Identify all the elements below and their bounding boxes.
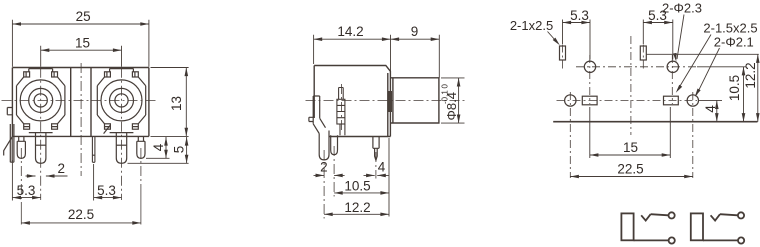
side pin 2 <box>331 135 338 154</box>
svg-text:14.2: 14.2 <box>337 24 363 39</box>
dim 2 (side) <box>314 174 345 178</box>
svg-text:22.5: 22.5 <box>617 161 643 176</box>
side needle pin <box>373 137 379 161</box>
side body outline <box>314 66 390 137</box>
bottom slot 2 (1.5x2.5) <box>664 96 679 105</box>
top slot hole 1 (1x2.5) <box>560 46 566 60</box>
dim 25 <box>12 20 149 67</box>
svg-text:12.2: 12.2 <box>743 62 758 88</box>
svg-text:15: 15 <box>75 35 90 50</box>
centerline side pin2 <box>333 146 335 197</box>
dim 14.2 <box>314 35 440 78</box>
svg-text:4: 4 <box>151 143 166 151</box>
svg-text:12.2: 12.2 <box>344 200 370 215</box>
dim 10.5 (fp) <box>697 67 747 122</box>
centerline small pin1 <box>20 148 22 204</box>
dim 5.3 right <box>94 164 122 201</box>
svg-text:22.5: 22.5 <box>68 207 94 222</box>
svg-text:5.3: 5.3 <box>17 183 36 198</box>
dim 5.3 (fp right) <box>643 20 673 60</box>
jack 1 (left RCA port) <box>17 69 65 133</box>
jack symbol 1 <box>621 212 674 243</box>
svg-text:5.3: 5.3 <box>570 8 589 23</box>
contact ladder <box>337 88 345 136</box>
dim 5 (front) <box>128 137 189 163</box>
left shield tab <box>7 108 12 115</box>
svg-text:9: 9 <box>411 24 419 39</box>
bottom slot 1 (1.5x2.5) <box>582 96 597 105</box>
svg-text:4: 4 <box>378 159 386 174</box>
centerline body vertical <box>80 63 82 176</box>
centerline ladder <box>341 84 343 130</box>
middle post <box>71 68 91 137</box>
shield plate side <box>309 96 326 134</box>
dim 4 (fp) <box>699 100 722 121</box>
footprint centerlines <box>562 45 564 71</box>
dim 12.2 (side) <box>324 213 389 217</box>
centerline side pin1 <box>323 150 325 219</box>
centerline jack1 vertical <box>40 68 42 200</box>
small pin jack2 <box>137 136 145 158</box>
svg-text:0: 0 <box>441 84 450 89</box>
svg-text:5.3: 5.3 <box>97 183 116 198</box>
svg-text:2-Φ2.1: 2-Φ2.1 <box>714 34 754 49</box>
dim phi 8.4 <box>441 78 465 123</box>
dim 9 <box>391 37 440 41</box>
dim 10.5 (side) <box>334 138 389 217</box>
centerline horizontal front <box>2 99 158 101</box>
top slot hole 2 (1x2.5) <box>640 46 646 60</box>
jack symbol 2 <box>691 212 744 243</box>
svg-text:2: 2 <box>58 161 66 176</box>
svg-text:4: 4 <box>703 105 718 113</box>
left shield pin <box>10 124 14 162</box>
top hole 1 (phi 2.3) <box>584 61 595 72</box>
bottom hole 1 (phi 2.1) <box>565 95 576 106</box>
center peg <box>92 136 95 162</box>
barrel base contact bar <box>388 91 392 112</box>
svg-text:13: 13 <box>169 96 184 111</box>
dim 5.3 (fp left) <box>563 20 591 60</box>
dim 12.2 (fp) <box>647 54 760 121</box>
dim 5.3 left <box>12 160 40 201</box>
svg-text:2: 2 <box>320 159 328 174</box>
svg-text:15: 15 <box>623 140 638 155</box>
svg-text:2-1x2.5: 2-1x2.5 <box>510 18 553 33</box>
dim 22.5 (front) <box>21 221 141 225</box>
top hole 2 (phi 2.3) <box>667 61 678 72</box>
bottom hole 2 (phi 2.1) <box>687 95 698 106</box>
centerline needle <box>375 152 377 179</box>
centerline horizontal side <box>306 99 467 101</box>
svg-text:-0.1: -0.1 <box>441 90 450 104</box>
dim 4 (side) <box>364 174 389 178</box>
big pin jack1 (center pin) <box>36 133 46 163</box>
board edge <box>553 121 757 123</box>
svg-text:25: 25 <box>76 9 91 24</box>
big pin jack2 (center pin) <box>116 133 126 163</box>
centerline jack2 vertical <box>121 68 123 200</box>
jack 2 (right RCA port) <box>97 69 145 134</box>
dim 15 <box>41 46 122 67</box>
dim 15 (fp) <box>590 107 671 158</box>
svg-text:5: 5 <box>171 146 186 154</box>
centerline small pin2 <box>140 148 142 188</box>
barrel <box>390 78 439 123</box>
body outline <box>12 68 149 137</box>
svg-text:2-Φ2.3: 2-Φ2.3 <box>662 0 702 15</box>
svg-text:10.5: 10.5 <box>344 178 370 193</box>
left bent leg <box>4 136 13 155</box>
dim 4 (front) <box>146 137 170 158</box>
small pin jack1 <box>17 136 25 158</box>
dim 2 (front) <box>26 174 68 178</box>
dim 13 <box>151 68 189 137</box>
svg-text:10.5: 10.5 <box>727 75 742 101</box>
dim 22.5 (fp) <box>570 175 693 179</box>
side pin 1 <box>319 131 329 160</box>
